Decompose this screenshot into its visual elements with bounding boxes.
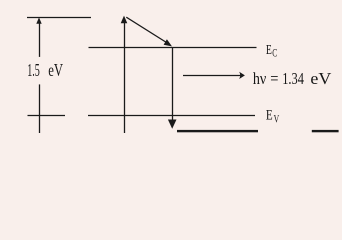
- svg-text:E: E: [266, 43, 272, 58]
- svg-text:1.5: 1.5: [27, 60, 40, 80]
- svg-text:V: V: [274, 113, 280, 125]
- svg-text:hν: hν: [253, 69, 267, 88]
- svg-text:=: =: [270, 69, 278, 88]
- svg-text:eV: eV: [48, 60, 63, 80]
- svg-text:C: C: [272, 46, 277, 60]
- svg-text:eV: eV: [310, 69, 331, 88]
- svg-text:1.34: 1.34: [282, 69, 304, 88]
- svg-text:E: E: [266, 107, 273, 123]
